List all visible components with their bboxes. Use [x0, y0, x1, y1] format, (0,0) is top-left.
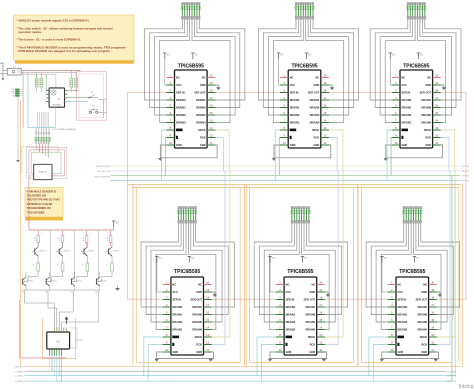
svg-text:14: 14 [206, 325, 209, 329]
svg-text:NC: NC [176, 75, 180, 79]
svg-text:SER IN: SER IN [290, 90, 299, 94]
svg-text:VCC: VCC [290, 83, 296, 87]
svg-text:11: 11 [435, 141, 438, 145]
svg-text:S2: S2 [91, 92, 94, 94]
svg-text:TPIC6B595: TPIC6B595 [291, 63, 317, 69]
svg-text:5V: 5V [195, 54, 198, 56]
svg-text:5V: 5V [281, 54, 284, 56]
svg-text:GPIO12: GPIO12 [462, 180, 470, 182]
svg-text:DRAIN4: DRAIN4 [417, 327, 427, 331]
svg-text:2: 2 [395, 81, 397, 85]
svg-text:GND: GND [176, 143, 182, 147]
svg-text:DRAIN4: DRAIN4 [306, 327, 316, 331]
svg-text:SER OUT: SER OUT [416, 297, 428, 301]
svg-text:NC: NC [423, 282, 427, 286]
svg-text:12: 12 [431, 340, 434, 344]
svg-text:* The button - S1 - is used to: * The button - S1 - is used to reset ESP… [17, 38, 82, 42]
svg-text:3: 3 [283, 88, 285, 92]
svg-text:13: 13 [323, 126, 326, 130]
svg-text:DRAIN2: DRAIN2 [286, 320, 296, 324]
svg-text:19: 19 [435, 81, 438, 85]
svg-text:DRAIN2: DRAIN2 [402, 113, 412, 117]
svg-text:1: 1 [391, 280, 393, 284]
svg-text:TPIC6B595: TPIC6B595 [287, 269, 313, 275]
svg-text:20: 20 [319, 280, 322, 284]
svg-text:15: 15 [210, 111, 213, 115]
svg-text:4: 4 [283, 96, 285, 100]
svg-text:7: 7 [279, 325, 281, 329]
svg-text:DRAIN6: DRAIN6 [310, 105, 320, 109]
svg-text:5V: 5V [416, 258, 419, 260]
svg-text:10: 10 [394, 141, 397, 145]
svg-text:9: 9 [391, 340, 393, 344]
svg-text:8: 8 [279, 333, 281, 337]
svg-text:VCC: VCC [172, 290, 178, 294]
svg-text:DRAIN7: DRAIN7 [310, 98, 320, 102]
svg-text:13: 13 [210, 126, 213, 130]
svg-text:GND: GND [309, 350, 315, 354]
svg-text:GND: GND [421, 350, 427, 354]
svg-text:5V: 5V [309, 54, 312, 56]
svg-text:13: 13 [431, 333, 434, 337]
svg-text:5: 5 [395, 103, 397, 107]
svg-text:DRAIN6: DRAIN6 [417, 312, 427, 316]
svg-text:ESP8266: ESP8266 [53, 105, 61, 107]
svg-text:3: 3 [395, 88, 397, 92]
svg-text:DRAIN0: DRAIN0 [402, 98, 412, 102]
svg-text:16: 16 [435, 103, 438, 107]
svg-text:10: 10 [165, 348, 168, 352]
svg-text:NC: NC [316, 75, 320, 79]
svg-text:14: 14 [319, 325, 322, 329]
svg-text:16: 16 [431, 310, 434, 314]
svg-text:10k: 10k [21, 292, 24, 294]
svg-text:SER OUT: SER OUT [308, 90, 320, 94]
svg-text:GND: GND [200, 143, 206, 147]
svg-text:8: 8 [283, 126, 285, 130]
svg-text:Ω: Ω [59, 240, 61, 242]
svg-text:17: 17 [431, 303, 434, 307]
svg-text:PROGRAMMED VIA: PROGRAMMED VIA [27, 206, 51, 210]
svg-text:1k: 1k [32, 265, 34, 267]
svg-text:ESP-01: ESP-01 [39, 172, 47, 174]
svg-text:SRCK: SRCK [420, 335, 427, 339]
svg-text:B-WHITE: B-WHITE [447, 381, 457, 383]
svg-text:SER OUT: SER OUT [304, 297, 316, 301]
svg-text:5V: 5V [159, 258, 162, 260]
svg-text:SER OUT: SER OUT [190, 297, 202, 301]
svg-text:11: 11 [324, 141, 327, 145]
svg-text:* AMS1117 power module supply: * AMS1117 power module supply 3.3V to ES… [17, 19, 90, 23]
svg-text:12: 12 [319, 340, 322, 344]
svg-text:1: 1 [279, 280, 281, 284]
svg-text:15: 15 [206, 318, 209, 322]
svg-text:2N3904: 2N3904 [39, 251, 45, 253]
svg-text:5V: 5V [116, 222, 119, 224]
svg-text:20: 20 [206, 280, 209, 284]
svg-text:10k: 10k [70, 292, 73, 294]
svg-text:DRAIN1: DRAIN1 [172, 312, 182, 316]
svg-text:6: 6 [279, 318, 281, 322]
svg-text:6 Pin FEMALE HEADER: 6 Pin FEMALE HEADER [52, 128, 76, 131]
svg-text:GND: GND [402, 143, 408, 147]
svg-text:7: 7 [395, 118, 397, 122]
svg-text:19: 19 [206, 288, 209, 292]
svg-text:SRCK: SRCK [312, 128, 319, 132]
svg-text:20: 20 [323, 73, 326, 77]
svg-text:ESP8266-01 CAN BE: ESP8266-01 CAN BE [27, 202, 53, 206]
svg-text:SER IN: SER IN [172, 297, 181, 301]
svg-text:DRAIN0: DRAIN0 [290, 98, 300, 102]
svg-text:12: 12 [210, 133, 213, 137]
svg-text:DRAIN3: DRAIN3 [402, 120, 412, 124]
svg-text:8: 8 [170, 126, 172, 130]
svg-text:Ω: Ω [35, 240, 37, 242]
svg-text:DRAIN0: DRAIN0 [176, 98, 186, 102]
svg-text:DRAIN2: DRAIN2 [172, 320, 182, 324]
svg-text:C-(WHT): C-(WHT) [15, 376, 24, 378]
svg-text:10: 10 [283, 141, 286, 145]
svg-text:RCK: RCK [425, 135, 431, 139]
svg-text:3: 3 [391, 295, 393, 299]
svg-text:DRAIN0: DRAIN0 [172, 305, 182, 309]
svg-text:20: 20 [431, 280, 434, 284]
svg-text:DRAIN4: DRAIN4 [421, 120, 431, 124]
svg-text:VCC: VCC [398, 290, 404, 294]
svg-text:NC: NC [198, 282, 202, 286]
svg-text:RCK: RCK [310, 342, 316, 346]
svg-text:DRAIN7: DRAIN7 [421, 98, 431, 102]
svg-text:GND: GND [425, 143, 431, 147]
svg-text:GND: GND [421, 290, 427, 294]
svg-text:DRAIN4: DRAIN4 [310, 120, 320, 124]
svg-text:DRAIN3: DRAIN3 [286, 327, 296, 331]
svg-text:TPIC6B595: TPIC6B595 [178, 63, 204, 69]
svg-text:C-(GRN): C-(GRN) [15, 371, 24, 373]
svg-text:RCK: RCK [314, 135, 320, 139]
svg-text:2: 2 [391, 288, 393, 292]
svg-text:6: 6 [391, 318, 393, 322]
svg-text:6 PIN MALE HEADER can plugged: 6 PIN MALE HEADER can plugged to it for … [18, 49, 111, 53]
svg-text:VCC: VCC [286, 290, 292, 294]
svg-text:13: 13 [319, 333, 322, 337]
svg-text:17: 17 [319, 303, 322, 307]
svg-text:DRAIN2: DRAIN2 [176, 113, 186, 117]
svg-text:11: 11 [431, 348, 434, 352]
svg-text:16: 16 [210, 103, 213, 107]
svg-text:74HC595: 74HC595 [75, 340, 84, 342]
svg-text:TPIC6B595: TPIC6B595 [399, 269, 425, 275]
svg-text:DRAIN1: DRAIN1 [290, 105, 300, 109]
svg-text:14: 14 [210, 118, 213, 122]
svg-text:SRCK: SRCK [198, 128, 205, 132]
svg-text:5: 5 [170, 103, 172, 107]
svg-text:19: 19 [319, 288, 322, 292]
svg-text:DRAIN4: DRAIN4 [192, 327, 202, 331]
svg-text:DRAIN6: DRAIN6 [196, 105, 206, 109]
svg-text:13: 13 [435, 126, 438, 130]
svg-text:DRAIN5: DRAIN5 [306, 320, 316, 324]
svg-text:GND: GND [200, 83, 206, 87]
svg-text:C-WHITE: C-WHITE [447, 376, 457, 378]
svg-text:DRAIN6: DRAIN6 [192, 312, 202, 316]
svg-text:7: 7 [170, 118, 172, 122]
svg-text:15: 15 [323, 111, 326, 115]
svg-text:20: 20 [435, 73, 438, 77]
svg-text:7: 7 [391, 325, 393, 329]
svg-text:4: 4 [279, 303, 281, 307]
svg-text:5V: 5V [191, 258, 194, 260]
svg-text:S1: S1 [92, 105, 95, 107]
svg-text:GND: GND [314, 83, 320, 87]
svg-text:2N3904: 2N3904 [64, 251, 70, 253]
svg-text:3: 3 [170, 88, 172, 92]
svg-text:SER OUT: SER OUT [420, 90, 432, 94]
svg-text:GPIO14 (CLK): GPIO14 (CLK) [96, 166, 110, 168]
svg-text:SRCK: SRCK [195, 335, 202, 339]
svg-text:16: 16 [323, 103, 326, 107]
svg-text:1k: 1k [57, 265, 59, 267]
svg-text:SOLDERED ON: SOLDERED ON [27, 194, 46, 198]
svg-text:8: 8 [391, 333, 393, 337]
svg-text:DRAIN7: DRAIN7 [306, 305, 316, 309]
svg-text:GPIO15: GPIO15 [462, 171, 470, 173]
svg-text:5: 5 [166, 310, 168, 314]
svg-text:THIS HEADER.: THIS HEADER. [27, 210, 46, 214]
svg-text:TPIC6B595: TPIC6B595 [403, 63, 429, 69]
svg-text:8: 8 [166, 333, 168, 337]
svg-text:3: 3 [279, 295, 281, 299]
svg-text:U2: U2 [13, 67, 15, 69]
svg-text:10: 10 [390, 348, 393, 352]
svg-text:DRAIN5: DRAIN5 [421, 113, 431, 117]
svg-text:NC: NC [311, 282, 315, 286]
svg-text:6: 6 [283, 111, 285, 115]
svg-text:4: 4 [395, 96, 397, 100]
svg-text:3: 3 [166, 295, 168, 299]
svg-text:VCC: VCC [176, 83, 182, 87]
svg-text:18: 18 [319, 295, 322, 299]
svg-text:18: 18 [431, 295, 434, 299]
svg-text:GND: GND [309, 290, 315, 294]
svg-text:GND: GND [425, 83, 431, 87]
svg-text:A-(RED): A-(RED) [15, 365, 24, 368]
svg-text:1: 1 [166, 280, 168, 284]
svg-text:11: 11 [210, 141, 213, 145]
svg-text:15: 15 [435, 111, 438, 115]
svg-text:operation modes.: operation modes. [18, 30, 42, 34]
svg-text:18: 18 [210, 88, 213, 92]
svg-text:RX: RX [12, 96, 15, 98]
svg-text:NC: NC [286, 282, 290, 286]
svg-text:2: 2 [170, 81, 172, 85]
svg-text:19: 19 [210, 81, 213, 85]
svg-text:10k: 10k [45, 292, 48, 294]
svg-text:19: 19 [431, 288, 434, 292]
svg-text:GPIO14: GPIO14 [462, 166, 470, 168]
svg-text:9: 9 [279, 340, 281, 344]
svg-text:SRCK: SRCK [308, 335, 315, 339]
svg-text:7: 7 [166, 325, 168, 329]
svg-text:DRAIN1: DRAIN1 [398, 312, 408, 316]
svg-text:GND: GND [286, 350, 292, 354]
svg-text:1: 1 [283, 73, 285, 77]
svg-text:5: 5 [279, 310, 281, 314]
svg-text:DRAIN1: DRAIN1 [286, 312, 296, 316]
svg-text:6: 6 [395, 111, 397, 115]
svg-text:6: 6 [170, 111, 172, 115]
svg-text:GND: GND [196, 350, 202, 354]
svg-text:18: 18 [323, 88, 326, 92]
svg-text:5V: 5V [420, 54, 423, 56]
svg-text:RCK: RCK [196, 342, 202, 346]
svg-text:DRAIN5: DRAIN5 [417, 320, 427, 324]
svg-text:GND: GND [290, 143, 296, 147]
svg-text:2N3904: 2N3904 [88, 251, 94, 253]
svg-text:10k: 10k [95, 292, 98, 294]
svg-text:NC: NC [290, 75, 294, 79]
svg-text:RCK: RCK [200, 135, 206, 139]
svg-text:5: 5 [391, 310, 393, 314]
svg-text:10: 10 [279, 348, 282, 352]
svg-text:13: 13 [206, 333, 209, 337]
svg-text:NC: NC [402, 75, 406, 79]
svg-text:NC: NC [202, 75, 206, 79]
svg-text:U3: U3 [54, 175, 56, 177]
svg-text:GPIO13 (MOSI): GPIO13 (MOSI) [94, 177, 110, 179]
svg-text:5V: 5V [305, 258, 308, 260]
svg-text:DRAIN0: DRAIN0 [398, 305, 408, 309]
svg-text:DRAIN2: DRAIN2 [290, 113, 300, 117]
svg-text:16: 16 [206, 310, 209, 314]
svg-text:17: 17 [206, 303, 209, 307]
svg-text:15: 15 [319, 318, 322, 322]
svg-text:GPIO15 (CS): GPIO15 (CS) [97, 171, 110, 173]
svg-text:DRAIN2: DRAIN2 [398, 320, 408, 324]
svg-text:17: 17 [210, 96, 213, 100]
svg-text:15: 15 [431, 318, 434, 322]
svg-text:14: 14 [435, 118, 438, 122]
svg-text:5V: 5V [167, 54, 170, 56]
svg-text:9: 9 [166, 340, 168, 344]
svg-text:DRAIN6: DRAIN6 [421, 105, 431, 109]
svg-text:9: 9 [283, 133, 285, 137]
svg-text:GPIO13: GPIO13 [462, 175, 470, 177]
svg-text:NC: NC [398, 282, 402, 286]
svg-text:6 PIN MALE HEADER IS: 6 PIN MALE HEADER IS [27, 189, 57, 193]
svg-text:5V: 5V [272, 258, 275, 260]
svg-text:TPIC6B595: TPIC6B595 [174, 269, 200, 275]
svg-text:2N3904: 2N3904 [113, 251, 119, 253]
svg-text:16: 16 [319, 310, 322, 314]
svg-text:18: 18 [435, 88, 438, 92]
svg-text:DRAIN3: DRAIN3 [172, 327, 182, 331]
svg-text:2: 2 [283, 81, 285, 85]
svg-text:DRAIN6: DRAIN6 [306, 312, 316, 316]
svg-text:1: 1 [170, 73, 172, 77]
svg-text:DRAIN1: DRAIN1 [402, 105, 412, 109]
svg-text:DRAIN5: DRAIN5 [310, 113, 320, 117]
svg-text:GND: GND [314, 143, 320, 147]
svg-text:DRAIN5: DRAIN5 [192, 320, 202, 324]
svg-text:7: 7 [283, 118, 285, 122]
svg-text:DRAIN4: DRAIN4 [196, 120, 206, 124]
svg-text:DRAIN0: DRAIN0 [286, 305, 296, 309]
svg-text:DRAIN7: DRAIN7 [417, 305, 427, 309]
svg-text:PROTOTYPE-PIN SO THAT: PROTOTYPE-PIN SO THAT [27, 198, 60, 202]
svg-text:Ω: Ω [107, 240, 109, 242]
svg-text:9: 9 [395, 133, 397, 137]
svg-text:C-WHITE: C-WHITE [447, 371, 457, 373]
svg-text:DRAIN7: DRAIN7 [196, 98, 206, 102]
svg-text:19: 19 [323, 81, 326, 85]
svg-text:4: 4 [170, 96, 172, 100]
svg-text:B-(GRN): B-(GRN) [15, 381, 24, 383]
svg-text:14: 14 [323, 118, 326, 122]
svg-text:1: 1 [395, 73, 397, 77]
svg-text:VCC: VCC [402, 83, 408, 87]
svg-text:DRAIN1: DRAIN1 [176, 105, 186, 109]
svg-text:2: 2 [279, 288, 281, 292]
svg-text:1k: 1k [106, 265, 108, 267]
svg-text:12: 12 [206, 340, 209, 344]
svg-text:NC: NC [172, 282, 176, 286]
svg-text:GND: GND [196, 290, 202, 294]
svg-text:SER OUT: SER OUT [194, 90, 206, 94]
svg-text:NC: NC [427, 75, 431, 79]
svg-text:GND: GND [172, 350, 178, 354]
svg-text:5: 5 [283, 103, 285, 107]
svg-text:DRAIN7: DRAIN7 [192, 305, 202, 309]
svg-text:SER IN: SER IN [402, 90, 411, 94]
svg-text:17: 17 [323, 96, 326, 100]
svg-text:DRAIN5: DRAIN5 [196, 113, 206, 117]
svg-text:1k: 1k [82, 265, 84, 267]
svg-text:RCK: RCK [421, 342, 427, 346]
svg-text:DRAIN3: DRAIN3 [290, 120, 300, 124]
svg-text:4: 4 [166, 303, 168, 307]
svg-text:20: 20 [210, 73, 213, 77]
svg-text:5V: 5V [392, 54, 395, 56]
svg-text:DRAIN3: DRAIN3 [398, 327, 408, 331]
svg-text:18: 18 [206, 295, 209, 299]
svg-text:9: 9 [170, 133, 172, 137]
svg-text:2: 2 [166, 288, 168, 292]
svg-text:12: 12 [323, 133, 326, 137]
svg-text:DRAIN3: DRAIN3 [176, 120, 186, 124]
svg-text:17: 17 [435, 96, 438, 100]
svg-text:SRCK: SRCK [424, 128, 431, 132]
svg-text:10: 10 [169, 141, 172, 145]
svg-text:5V: 5V [384, 258, 387, 260]
svg-text:11: 11 [206, 348, 209, 352]
svg-text:GND: GND [398, 350, 404, 354]
svg-text:6: 6 [166, 318, 168, 322]
svg-text:8: 8 [395, 126, 397, 130]
svg-text:SER IN: SER IN [176, 90, 185, 94]
svg-text:fritzing: fritzing [459, 384, 474, 389]
svg-text:SER IN: SER IN [398, 297, 407, 301]
svg-text:4: 4 [391, 303, 393, 307]
svg-text:SER IN: SER IN [286, 297, 295, 301]
svg-text:14: 14 [431, 325, 434, 329]
svg-text:12: 12 [435, 133, 438, 137]
svg-text:11: 11 [319, 348, 322, 352]
svg-text:Ω: Ω [83, 240, 85, 242]
